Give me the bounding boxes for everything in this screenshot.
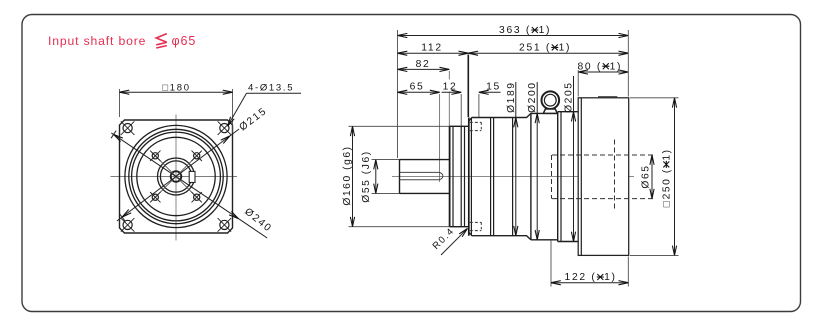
dimension 122 line with arrows bbox=[551, 282, 628, 284]
corner bolt holes 4x dia13.5 with cross marks bbox=[123, 124, 132, 133]
output block inner face line bbox=[580, 98, 582, 256]
square-250 extension line top bbox=[630, 97, 679, 99]
svg-text:80 (: 80 ( bbox=[577, 61, 602, 72]
input flange line 2 bbox=[452, 126, 454, 226]
fillet R0.4 leader and label bbox=[441, 229, 467, 255]
dimension 251 line bbox=[468, 52, 628, 54]
dia205 bottom edge bbox=[558, 241, 579, 243]
output block square-250 outline bbox=[578, 98, 629, 256]
input flange top edge bbox=[450, 125, 469, 127]
svg-text:Ø160 (g6): Ø160 (g6) bbox=[342, 145, 353, 205]
left shared extension line for 363/112/82/65 bbox=[397, 30, 399, 158]
svg-text:Ø189: Ø189 bbox=[506, 82, 517, 113]
dia160 extension line bottom bbox=[349, 226, 469, 228]
square-180 dimension line bbox=[120, 91, 233, 93]
dimension 112 line bbox=[398, 52, 469, 54]
square-250 extension line bottom bbox=[630, 254, 679, 256]
input flange face (bold) bbox=[449, 126, 451, 226]
svg-text:Input shaft bore: Input shaft bore bbox=[48, 34, 146, 48]
side view centerline bbox=[392, 176, 634, 178]
hidden screw holes bottom (dashed) bbox=[470, 221, 482, 223]
diagonal dimension line for dia215 bolt circle (40deg) bbox=[117, 129, 239, 221]
svg-text:1): 1) bbox=[559, 43, 572, 54]
front flange square outline (chamfered corners) bbox=[120, 120, 233, 233]
svg-text:Ø55 (J6): Ø55 (J6) bbox=[361, 150, 372, 202]
hidden bore start dashed vertical bbox=[551, 155, 553, 199]
front view centerline vertical bbox=[175, 115, 177, 241]
front view hub double circle inner bbox=[160, 161, 191, 192]
input shaft outline bbox=[400, 159, 450, 161]
lifting eyebolt base bbox=[543, 109, 557, 113]
extension line 65 end bbox=[439, 94, 441, 182]
diagonal dimension line for dia240 corner circle (34deg) bbox=[111, 133, 267, 238]
square-180 dimension extension line right bbox=[232, 89, 234, 133]
ring housing bottom edge with chamfers bbox=[469, 232, 531, 240]
dia200 bottom edge bbox=[531, 239, 558, 241]
input flange bottom edge bbox=[450, 226, 469, 228]
extension line 80 left bbox=[577, 70, 579, 97]
dia205 top edge bbox=[558, 111, 579, 113]
ring housing top edge with chamfers bbox=[469, 113, 531, 121]
ring housing joint line 2 bbox=[512, 118, 514, 236]
bold middle extension line at 112/251 junction bbox=[467, 55, 469, 118]
svg-text:1): 1) bbox=[662, 148, 673, 160]
extension line 12 end bbox=[460, 94, 462, 126]
extension line 15 end bbox=[478, 94, 480, 117]
dimension 65 line bbox=[398, 91, 440, 93]
front view centerline horizontal bbox=[111, 176, 238, 178]
45deg hole-pattern centerline cross bbox=[151, 152, 200, 201]
svg-text:1): 1) bbox=[604, 272, 617, 283]
dimension 122 extension line left bbox=[550, 240, 552, 287]
svg-text:1): 1) bbox=[539, 25, 552, 36]
svg-text:1): 1) bbox=[610, 61, 623, 72]
svg-text:363 (: 363 ( bbox=[499, 25, 531, 36]
dia189 dimension line with arrows bbox=[515, 82, 517, 236]
svg-text:Ø200: Ø200 bbox=[527, 82, 538, 113]
svg-text:Ø65: Ø65 bbox=[641, 164, 652, 188]
dia205 dimension line with arrows bbox=[573, 76, 575, 242]
front view hub double circle outer bbox=[158, 158, 195, 195]
dimension 80 ref1 line bbox=[578, 71, 628, 73]
dimension 15 line with arrow bbox=[479, 91, 501, 93]
square-180 dimension extension line left bbox=[119, 89, 121, 117]
front view circle 3 bbox=[132, 132, 221, 221]
dia200 section left face bbox=[530, 113, 532, 239]
front view circle 2 bbox=[129, 129, 223, 223]
keyway rectangle at hub right side bbox=[189, 171, 195, 182]
svg-text:122 (: 122 ( bbox=[565, 272, 597, 283]
svg-text:12: 12 bbox=[443, 82, 458, 93]
hidden screw holes top (dashed) bbox=[470, 121, 482, 123]
dia200 dimension line with arrows bbox=[536, 82, 538, 240]
dimension 363 line with arrows bbox=[398, 35, 629, 37]
front view outer circle (register) bbox=[125, 125, 227, 227]
dia205 section face pair bbox=[557, 112, 559, 242]
square-250 dimension line with arrows bbox=[674, 98, 676, 256]
dimension 12 line with arrow bbox=[442, 91, 461, 93]
input shaft keyway slot bbox=[400, 172, 443, 179]
svg-text:□180: □180 bbox=[162, 82, 190, 93]
input flange line 4 bbox=[464, 126, 466, 226]
dia160 extension line top bbox=[349, 125, 465, 127]
front view center shaft hole (bold) bbox=[171, 171, 182, 182]
svg-text:4-Ø13.5: 4-Ø13.5 bbox=[248, 82, 294, 93]
dimension 82 line bbox=[398, 68, 450, 70]
dia160 dimension line bbox=[352, 126, 354, 226]
svg-text:82: 82 bbox=[416, 59, 431, 70]
ring housing left face pair line bbox=[470, 118, 472, 236]
svg-text:φ65: φ65 bbox=[172, 34, 197, 48]
svg-text:65: 65 bbox=[410, 82, 425, 93]
label square-250 ref1 rotated bbox=[662, 148, 673, 207]
svg-text:□250 (: □250 ( bbox=[662, 168, 673, 207]
dia55 extension line top bbox=[372, 159, 400, 161]
svg-text:15: 15 bbox=[486, 82, 501, 93]
dia200 top edge bbox=[531, 112, 558, 114]
svg-text:112: 112 bbox=[421, 43, 443, 54]
inner bolt holes 4x with cross marks bbox=[152, 153, 158, 159]
extension line 82 end (broken at label 12) bbox=[448, 71, 450, 80]
hidden counterbore dashed vertical bbox=[614, 140, 616, 210]
svg-text:251 (: 251 ( bbox=[519, 43, 551, 54]
input flange line 3 bbox=[460, 126, 462, 226]
dia55 extension line bottom bbox=[372, 192, 400, 194]
ring gear housing left face (bold) bbox=[468, 118, 470, 236]
front view circle 4 bbox=[137, 137, 215, 215]
dia55 dimension line bbox=[375, 160, 377, 194]
right shared extension line 363/251/80 bbox=[627, 30, 629, 97]
svg-text:Ø205: Ø205 bbox=[563, 82, 574, 113]
small plate on top of block bbox=[598, 96, 617, 98]
ring housing joint line pair 1 bbox=[490, 118, 492, 236]
dia65 dimension line with arrows bbox=[651, 155, 653, 199]
lifting eyebolt ring bbox=[542, 91, 560, 109]
dimension 122 extension line right bbox=[627, 257, 629, 287]
hidden bore dia65 dashed lines bbox=[552, 154, 656, 156]
